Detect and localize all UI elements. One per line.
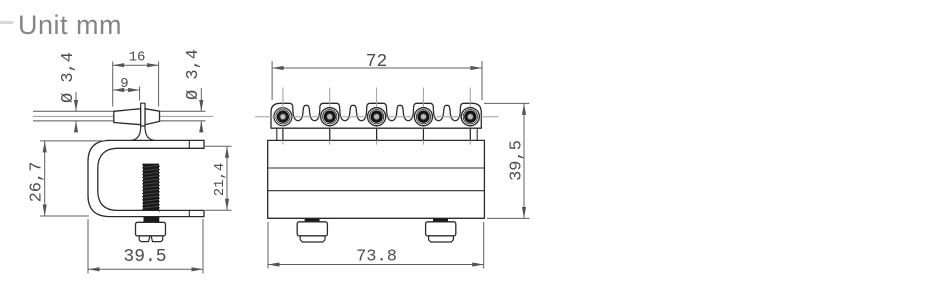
- dimension 21,4: [205, 145, 232, 147]
- screw pin through comb: [141, 103, 145, 126]
- screw shank 3: [376, 128, 378, 140]
- comb rail side profile: right cone: [145, 109, 160, 125]
- dimension 72: [271, 61, 273, 100]
- screw centre line 4: [422, 88, 424, 145]
- dimension 16: [112, 62, 114, 107]
- svg-text:72: 72: [366, 52, 388, 72]
- screw head at x=470.3: [461, 108, 479, 126]
- screw shank 5: [469, 128, 471, 140]
- dimension 39,5 (right of front view): [484, 102, 530, 104]
- body block: [268, 140, 485, 218]
- wire-hole edge lines (right): [160, 110, 206, 112]
- svg-text:16: 16: [129, 50, 146, 66]
- screw shank 4: [422, 128, 424, 140]
- screw head at x=376.6: [368, 108, 386, 126]
- svg-text:39.5: 39.5: [123, 247, 166, 267]
- svg-text:39,5: 39,5: [508, 140, 527, 181]
- svg-text:21,4: 21,4: [212, 163, 228, 197]
- screw centre line 3: [376, 88, 378, 145]
- foot 2: [433, 219, 448, 222]
- dimension 9: [139, 87, 141, 101]
- top arm end cap line: [188, 140, 190, 148]
- comb rail side profile: left cone: [114, 109, 141, 125]
- dimension 39.5 (bottom of side view): [87, 219, 89, 274]
- dimension 26,7: [40, 140, 106, 142]
- svg-text:9: 9: [120, 76, 128, 92]
- list dash artifact: [0, 21, 13, 24]
- thumb-screw washer: [136, 222, 166, 236]
- wire-hole edge lines (left): [33, 110, 114, 112]
- knurled teeth: [139, 236, 150, 242]
- screw heads: white washers: [274, 108, 292, 126]
- screw socket 2: [325, 112, 335, 122]
- screw shank 2: [329, 128, 331, 140]
- dimension dia 3,4 right: [200, 88, 202, 111]
- foot 1: [305, 219, 320, 222]
- svg-text:73.8: 73.8: [356, 248, 397, 267]
- rod end below arm: [144, 217, 160, 222]
- screw head at x=329.75: [321, 108, 339, 126]
- screw shank 1: [282, 128, 284, 140]
- svg-text:26,7: 26,7: [28, 162, 47, 203]
- stem flare onto arm: [132, 126, 141, 140]
- body groove lines: [268, 167, 485, 169]
- dimension dia 3,4 left: [75, 92, 77, 111]
- bottom arm end cap line: [188, 210, 190, 216]
- clamp C-body: [88, 140, 204, 216]
- screw socket 4: [419, 112, 429, 122]
- screws drawn by script placeholder: [255, 88, 499, 145]
- screw centre line 5: [469, 88, 471, 145]
- title: Unit mm: [18, 10, 122, 41]
- center line horizontal: [33, 115, 213, 117]
- dimension 73.8: [267, 222, 269, 269]
- screw socket 3: [372, 112, 382, 122]
- screw centre line 1: [282, 88, 284, 145]
- screw head at x=423.45: [414, 108, 432, 126]
- web verticals under rail: [276, 128, 278, 140]
- screw centre line 2: [329, 88, 331, 145]
- svg-text:Ø 3,4: Ø 3,4: [59, 52, 78, 103]
- threaded rod: [143, 164, 159, 211]
- svg-text:Ø 3,4: Ø 3,4: [184, 49, 203, 100]
- comb rail with wavy top: [271, 103, 481, 128]
- screw socket 5: [466, 112, 476, 122]
- center line horizontal (front view): [255, 116, 499, 118]
- screw socket 1: [278, 112, 288, 122]
